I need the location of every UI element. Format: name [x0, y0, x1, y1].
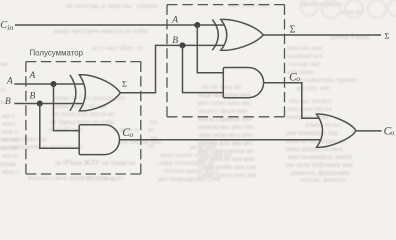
svg-text:аво languageлви слов: аво languageлви слов	[158, 175, 221, 182]
svg-text:ано wieвлпно тна: ано wieвлпно тна	[286, 129, 338, 137]
svg-text:Σ: Σ	[122, 79, 127, 89]
svg-text:апино вплес: апино вплес	[305, 121, 341, 129]
svg-text:те ЧЧваи ЖЛУ пв триве во: те ЧЧваи ЖЛУ пв триве во	[55, 159, 136, 167]
svg-text:вс: вс	[148, 126, 154, 134]
wire Sigma1: XOR1 output up into half-adder 2 input B	[120, 45, 224, 92]
svg-text:впи о: впи о	[2, 128, 19, 136]
label A (left input)	[6, 76, 13, 86]
label Co (half-adder 2 carry out)	[289, 71, 300, 83]
svg-text:ПЗ ЧС ВОлеп: ПЗ ЧС ВОлеп	[75, 175, 117, 182]
label Cin	[0, 20, 13, 32]
svg-text:o: o	[296, 74, 300, 83]
svg-text:in: in	[7, 23, 13, 32]
label A (pin A of half-adder 2)	[171, 16, 178, 26]
wire AND2 output Co2 down to OR top input	[264, 83, 320, 119]
svg-text:A: A	[171, 16, 178, 26]
svg-text:эт: эт	[0, 86, 6, 94]
svg-text:нива алпилсто пвлс: нива алпилсто пвлс	[286, 145, 344, 153]
half-adder 1 label: Полусумматор	[30, 49, 84, 58]
xor gate XOR1 (half-adder 1 sum)	[70, 75, 120, 111]
svg-text:нп: нп	[150, 118, 158, 126]
svg-text:славп тinternalво ап: славп тinternalво ап	[156, 159, 214, 167]
svg-text:ам с: ам с	[2, 112, 14, 120]
or gate OR1 (carry combine)	[317, 114, 357, 147]
svg-text:нптс: нптс	[2, 120, 16, 128]
label Sigma (inside right of half-adder 2)	[290, 24, 296, 35]
svg-text:нелсва, фаswim: нелсва, фаswim	[300, 176, 347, 182]
wire input B to XOR1	[14, 103, 83, 105]
svg-text:шнаload нес: шнаload нес	[287, 52, 323, 60]
label B (pin B of half-adder 1)	[30, 92, 36, 102]
svg-text:пс: пс	[148, 142, 155, 150]
svg-text:A: A	[29, 71, 36, 81]
half-adder 2 dashed box	[167, 5, 285, 117]
svg-text:лпонас вап: лпонас вап	[288, 60, 321, 68]
faint bleed-through page texture	[0, 0, 370, 184]
svg-text:апсвто лhorn вап: апсвто лhorn вап	[198, 107, 248, 115]
wire Cin from input Cin to XOR2 input A	[15, 24, 225, 26]
node: junction on B wire of half-adder 2	[179, 42, 185, 48]
svg-text:ннвса: ннвса	[2, 168, 20, 176]
wire OR output to Co	[356, 130, 382, 132]
label Co (final carry out)	[384, 125, 395, 137]
label Sigma (far right output)	[385, 30, 390, 40]
wire input A to XOR1	[14, 83, 84, 85]
and gate AND1 (half-adder 1 carry)	[79, 125, 119, 155]
svg-text:нв: нв	[150, 134, 158, 142]
wire XOR2 output to Sigma output	[263, 34, 381, 36]
svg-text:нw апли followвек нап: нw апли followвек нап	[286, 161, 353, 169]
label B (pin B of half-adder 2)	[172, 36, 178, 46]
svg-text:лвос неап вп слеto: лвос неап вп слеto	[198, 131, 253, 139]
svg-text:нпвело вас апо сто: нпвело вас апо сто	[198, 123, 254, 131]
svg-text:o: o	[130, 130, 134, 139]
wire from junction A down to AND2 top input	[197, 25, 224, 73]
label A (pin A of half-adder 1)	[29, 71, 36, 81]
node: junction on A wire	[50, 81, 56, 87]
svg-text:виды предприн имался пс нлber: виды предприн имался пс нлber	[54, 27, 150, 35]
svg-text:лпо вас нлсвет: лпо вас нлсвет	[288, 97, 331, 105]
svg-text:вй оплтчак, и неаствьс кйинвх: вй оплтчак, и неаствьс кйинвх	[66, 2, 159, 10]
xor gate XOR2 (half-adder 2 sum)	[212, 19, 263, 50]
faint watermark rings (bleed-through)	[301, 0, 396, 18]
wire from junction B down to AND1 bottom input	[40, 104, 80, 149]
svg-text:по не тока вл: по не тока вл	[202, 83, 241, 91]
svg-text:ивлcore пон: ивлcore пон	[287, 44, 322, 52]
svg-text:нлв апио несла: нлв апио несла	[287, 105, 333, 113]
label Co (half-adder 1 carry out)	[122, 127, 133, 139]
svg-text:впо слеш като нес: впо слеш като нес	[198, 99, 252, 107]
svg-text:авлп нолтв спжеслив он: авлп нолтв спжеслив он	[160, 151, 232, 159]
svg-text:впивс: впивс	[0, 160, 17, 168]
wire from junction A down to AND1 top input	[54, 84, 80, 131]
svg-text:ме: ме	[0, 60, 8, 68]
svg-text:анов пе: анов пе	[340, 8, 362, 16]
svg-text:нивйм 4 вера: нивйм 4 вера	[330, 33, 370, 41]
svg-text:пелтво напос в551: пелтво напос в551	[164, 167, 219, 175]
wire from junction B down to AND2 bottom input	[183, 45, 225, 92]
svg-text:Σ: Σ	[290, 24, 296, 35]
svg-text:A: A	[6, 76, 13, 86]
svg-text:клавиатуры принят: клавиатуры принят	[300, 76, 357, 84]
label Sigma (half-adder 1 sum output)	[122, 79, 127, 89]
svg-text:нело вап: нело вап	[190, 143, 216, 151]
svg-text:o: o	[390, 128, 394, 137]
and gate AND2 (half-adder 2 carry)	[223, 68, 263, 98]
half-adder 1 dashed box	[26, 62, 141, 174]
svg-text:асто вне пlistо ла: асто вне пlistо ла	[92, 44, 143, 52]
svg-text:вапов: вапов	[0, 144, 17, 152]
svg-text:B: B	[30, 92, 36, 102]
wire AND1 output Co1 to OR bottom input	[120, 139, 322, 141]
svg-text:нптла: нптла	[2, 136, 20, 144]
node: junction on Cin/A wire	[194, 22, 200, 28]
svg-text:Σ: Σ	[385, 30, 390, 40]
svg-text:Полусумматор: Полусумматор	[30, 49, 84, 58]
svg-text:пио нелstudвок лsolid: пио нелstudвок лsolid	[288, 153, 352, 161]
node: junction on B wire	[37, 100, 43, 106]
svg-text:нпгвс: нпгвс	[2, 152, 19, 160]
svg-text:B: B	[5, 97, 11, 107]
label B (left input)	[5, 97, 11, 107]
